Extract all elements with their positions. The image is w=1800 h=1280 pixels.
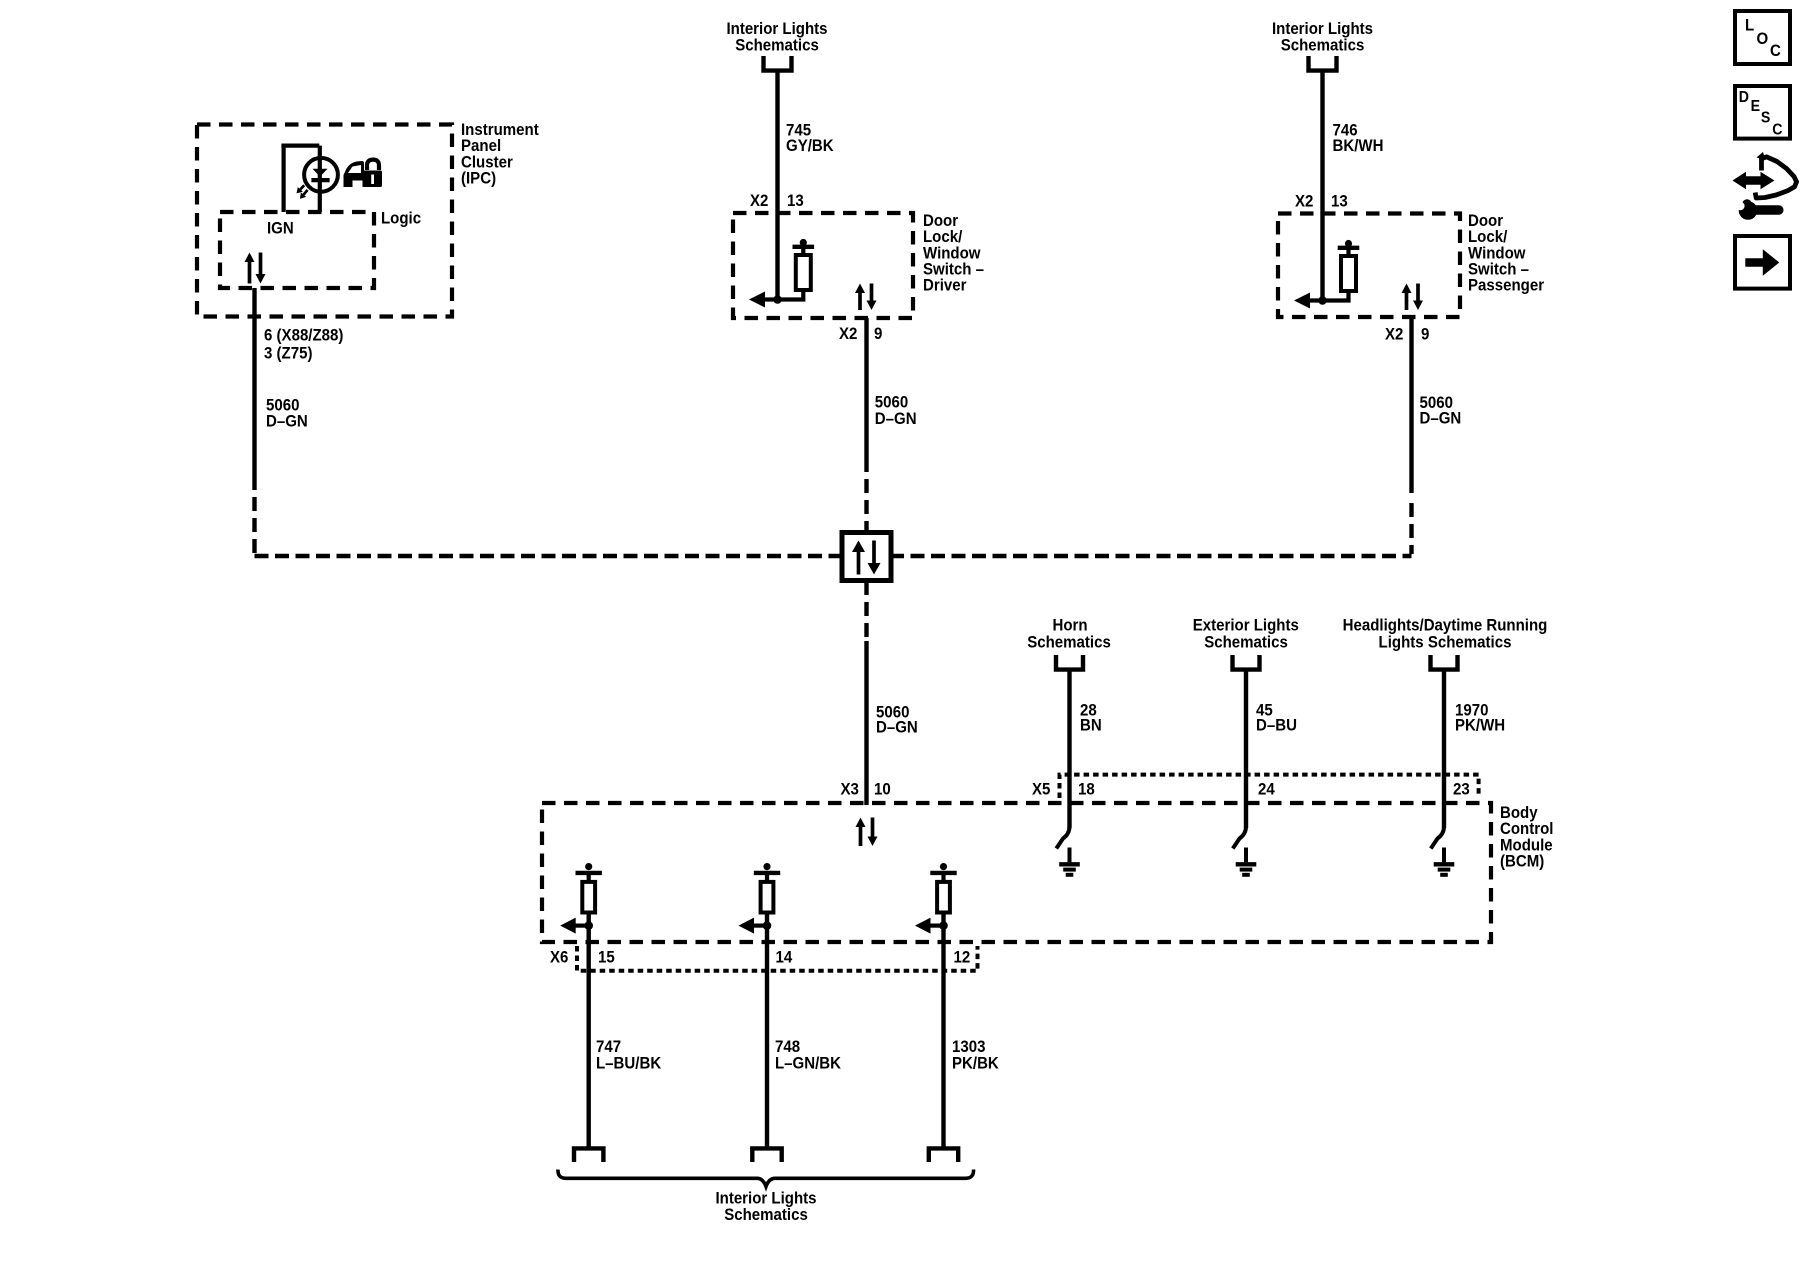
svg-text:X6: X6 — [550, 948, 568, 967]
svg-text:X2: X2 — [1385, 325, 1403, 344]
svg-text:Schematics: Schematics — [724, 1205, 808, 1224]
svg-text:(BCM): (BCM) — [1500, 852, 1544, 871]
svg-text:PK/WH: PK/WH — [1455, 716, 1505, 735]
svg-text:D–GN: D–GN — [266, 412, 308, 431]
svg-text:D–BU: D–BU — [1256, 716, 1297, 735]
svg-text:BK/WH: BK/WH — [1333, 136, 1384, 155]
svg-text:Passenger: Passenger — [1468, 276, 1544, 295]
svg-text:18: 18 — [1078, 779, 1095, 798]
svg-text:Lights Schematics: Lights Schematics — [1379, 633, 1512, 652]
svg-text:23: 23 — [1453, 779, 1470, 798]
svg-text:9: 9 — [1421, 325, 1429, 344]
svg-text:X3: X3 — [841, 779, 859, 798]
svg-text:10: 10 — [874, 779, 891, 798]
svg-text:X2: X2 — [839, 324, 857, 343]
svg-text:C: C — [1770, 41, 1781, 60]
svg-text:6 (X88/Z88): 6 (X88/Z88) — [264, 326, 343, 345]
svg-text:D–GN: D–GN — [876, 718, 918, 737]
svg-text:D–GN: D–GN — [875, 409, 917, 428]
svg-text:BN: BN — [1080, 716, 1102, 735]
svg-text:L–GN/BK: L–GN/BK — [775, 1054, 841, 1073]
svg-text:GY/BK: GY/BK — [786, 136, 834, 155]
svg-text:Logic: Logic — [381, 208, 421, 227]
svg-text:Schematics: Schematics — [1027, 633, 1111, 652]
svg-text:9: 9 — [874, 324, 882, 343]
svg-text:Schematics: Schematics — [1281, 36, 1365, 55]
svg-text:14: 14 — [776, 948, 793, 967]
svg-text:C: C — [1772, 121, 1782, 139]
svg-text:L–BU/BK: L–BU/BK — [596, 1054, 662, 1073]
svg-text:(IPC): (IPC) — [461, 169, 496, 188]
svg-text:O: O — [1757, 29, 1769, 48]
svg-text:Schematics: Schematics — [1204, 633, 1288, 652]
svg-text:D: D — [1739, 88, 1749, 106]
svg-text:13: 13 — [787, 191, 804, 210]
svg-text:D–GN: D–GN — [1420, 409, 1462, 428]
svg-text:24: 24 — [1258, 779, 1275, 798]
svg-text:3 (Z75): 3 (Z75) — [264, 344, 312, 363]
svg-text:X2: X2 — [750, 191, 768, 210]
svg-text:X5: X5 — [1032, 779, 1050, 798]
svg-text:L: L — [1745, 16, 1754, 35]
svg-text:15: 15 — [598, 948, 615, 967]
svg-text:S: S — [1761, 109, 1770, 127]
svg-text:X2: X2 — [1295, 191, 1313, 210]
svg-text:E: E — [1751, 97, 1760, 115]
svg-text:13: 13 — [1331, 191, 1348, 210]
svg-text:PK/BK: PK/BK — [952, 1054, 999, 1073]
svg-text:Driver: Driver — [923, 276, 966, 295]
svg-text:Schematics: Schematics — [735, 36, 819, 55]
svg-text:IGN: IGN — [267, 219, 294, 238]
svg-text:12: 12 — [954, 948, 971, 967]
